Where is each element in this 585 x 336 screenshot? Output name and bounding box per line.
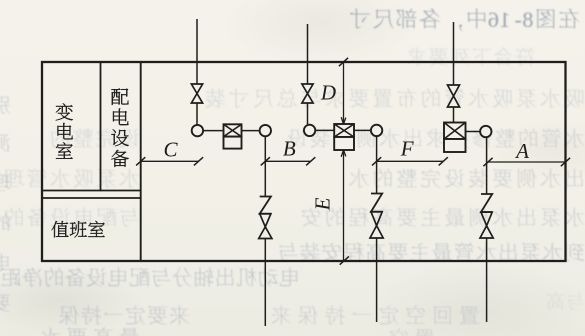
svg-text:1: 1 <box>500 7 511 32</box>
pump unit P3 (motor over pump) <box>444 123 466 153</box>
dimension line C <box>136 138 203 166</box>
discharge downpipe, pump 2 <box>376 137 378 322</box>
label 值班室 (duty room) <box>52 221 105 238</box>
top wall of duty room <box>42 197 141 199</box>
suction riser pipe, pump 2 <box>307 24 309 124</box>
svg-text:6: 6 <box>488 7 499 32</box>
svg-text:C: C <box>163 138 178 162</box>
suction flange circle, pump 1 <box>192 125 203 136</box>
suction flange circle, pump 2 <box>304 125 315 136</box>
svg-text:8: 8 <box>522 7 533 32</box>
check/foot valve on downpipe, pump 2 <box>370 194 383 239</box>
pump unit P2 (motor over pump) <box>334 124 354 150</box>
label 配电设备 (power distribution equipment) <box>111 88 129 167</box>
suction connection pipe, pump 1 <box>204 130 224 132</box>
pump house outer wall <box>42 62 566 261</box>
gate valve D on riser, pump 2 <box>302 84 313 103</box>
discharge downpipe, pump 3 <box>486 138 488 322</box>
vertical dimension line E <box>311 58 349 265</box>
suction connection pipe, pump 2 <box>316 129 334 131</box>
dimension line F <box>372 137 448 166</box>
pump unit P1 (motor over pump) <box>224 124 242 148</box>
svg-text:A: A <box>514 139 529 163</box>
discharge downpipe, pump 1 <box>264 137 266 326</box>
svg-text:-: - <box>515 7 522 32</box>
wall between switchgear room and pump hall <box>140 62 142 261</box>
discharge connection pipe, pump 3 <box>466 131 480 133</box>
label D <box>320 81 336 105</box>
discharge connection pipe, pump 2 <box>354 129 370 131</box>
discharge flange circle, pump 3 <box>480 126 491 137</box>
dimension line A <box>483 139 570 166</box>
gate valve on riser, pump 3 <box>448 85 460 107</box>
check/foot valve on downpipe, pump 3 <box>480 194 493 238</box>
discharge connection pipe, pump 1 <box>242 130 260 132</box>
suction riser pipe, pump 3 <box>453 22 455 123</box>
svg-text:E: E <box>311 197 335 211</box>
bottom wall of switchgear room <box>42 190 141 192</box>
svg-text:F: F <box>400 137 414 161</box>
gate valve on riser, pump 1 <box>191 84 202 103</box>
suction riser pipe, pump 1 <box>196 19 198 124</box>
discharge flange circle, pump 1 <box>260 125 271 136</box>
wall between transformer room and switchgear room <box>100 62 102 191</box>
svg-text:B: B <box>283 137 296 161</box>
discharge flange circle, pump 2 <box>371 125 382 136</box>
svg-text:D: D <box>320 81 336 105</box>
label 变电室 (transformer room) <box>56 103 73 158</box>
dimension line B <box>261 137 316 166</box>
check/foot valve on downpipe, pump 1 <box>259 197 272 239</box>
